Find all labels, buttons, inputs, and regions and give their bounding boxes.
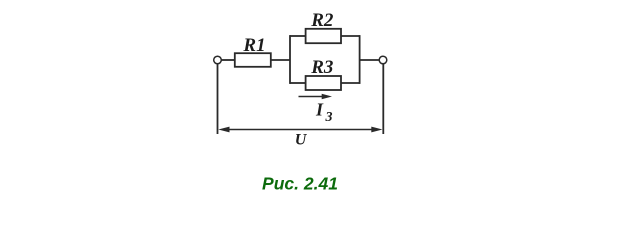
terminal T1 (left) [214, 56, 222, 64]
svg-text:R1: R1 [242, 35, 265, 56]
resistor R1 [235, 53, 271, 67]
wire R3 to node B [341, 82, 360, 84]
svg-text:U: U [295, 131, 308, 148]
wire node A to R2 [290, 35, 305, 37]
svg-text:I: I [315, 100, 324, 120]
current arrow I3 shaft [299, 96, 325, 98]
svg-text:R2: R2 [310, 10, 334, 31]
wire T1 to R1 [221, 59, 235, 61]
svg-text:3: 3 [325, 110, 333, 125]
svg-text:Рис. 2.41: Рис. 2.41 [262, 174, 338, 194]
wire node B to T2 [360, 59, 380, 61]
current arrow I3 head [322, 94, 332, 100]
wire node A to R3 [290, 82, 305, 84]
wire R1 to node A [271, 59, 290, 61]
U dimension arrowhead left [218, 127, 229, 133]
svg-text:R3: R3 [310, 57, 333, 78]
U dimension arrowhead right [371, 127, 382, 133]
resistor R3 [306, 76, 341, 90]
resistor R2 [306, 29, 341, 43]
voltage dimension line U shaft [226, 129, 375, 131]
terminal T2 (right) [379, 56, 387, 64]
wire T1 down to U line [217, 64, 219, 134]
node B (right junction vertical) [359, 35, 361, 84]
node A (left junction vertical) [289, 35, 291, 84]
wire R2 to node B [341, 35, 360, 37]
wire T2 down to U line [382, 64, 384, 134]
